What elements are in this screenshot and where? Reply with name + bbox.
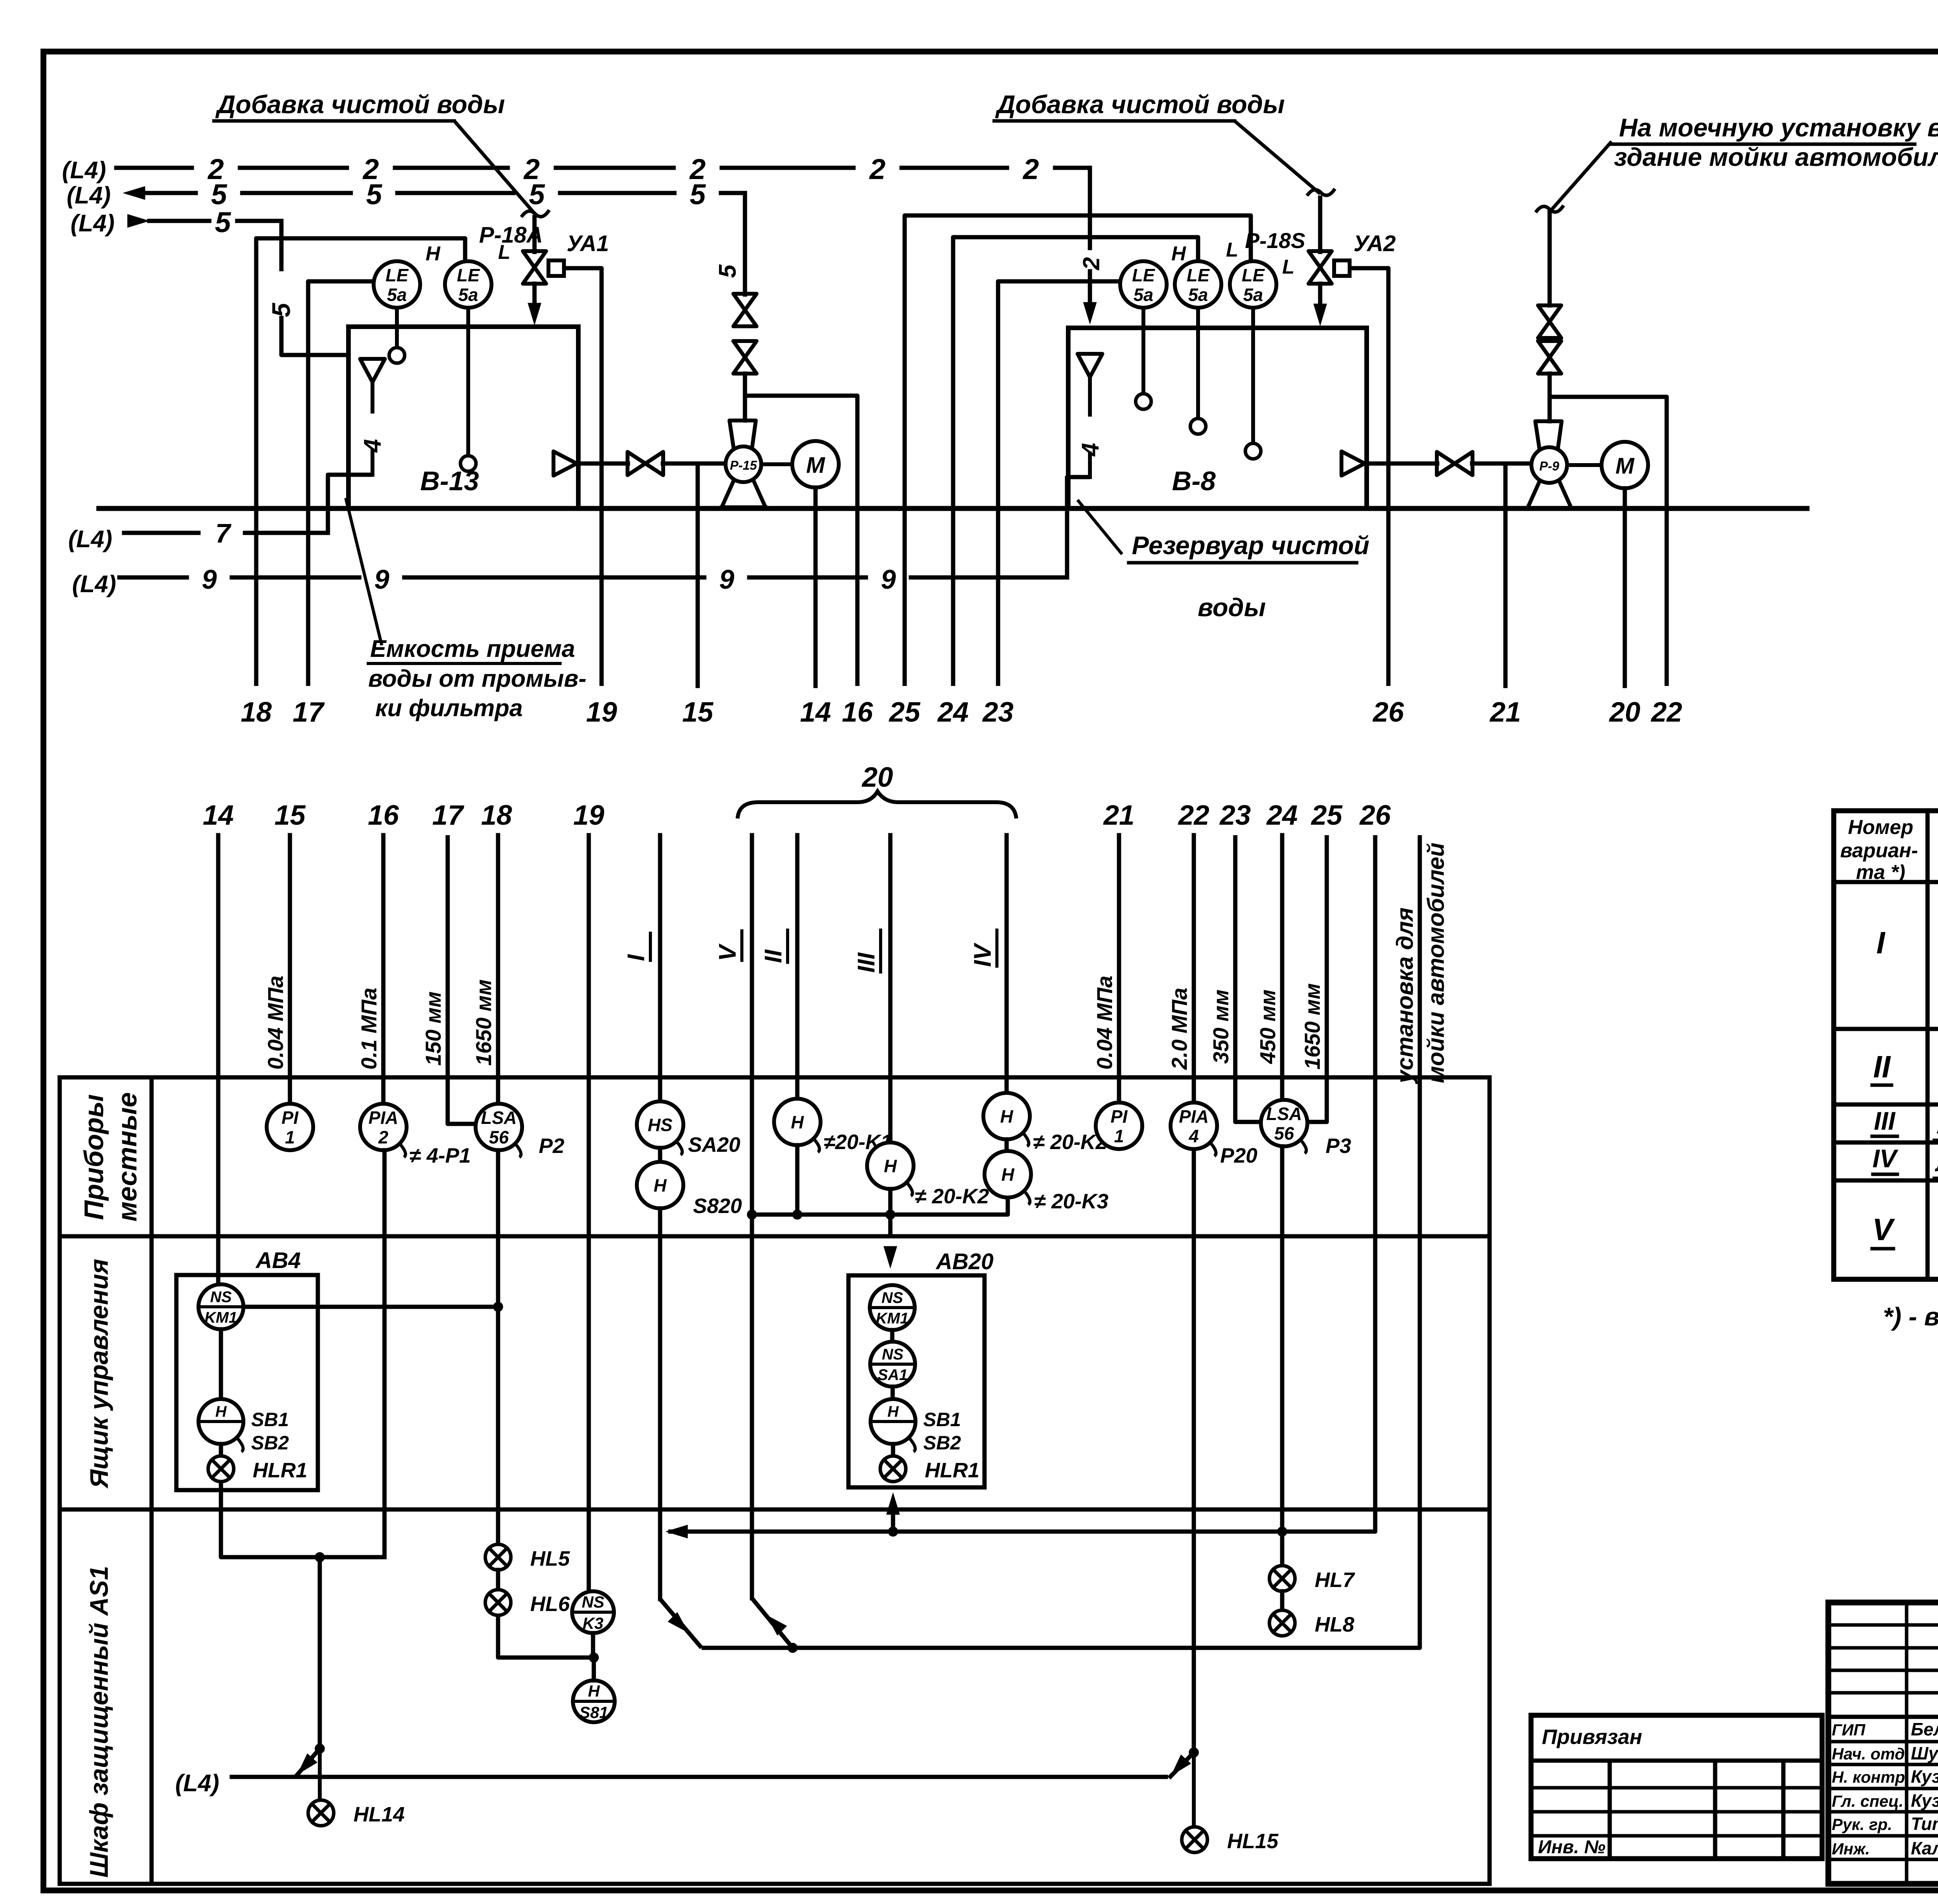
pipe from P-18S into tank B-8 with arrow — [1318, 284, 1322, 306]
pump P-9 — [1535, 421, 1562, 450]
svg-text:25: 25 — [888, 697, 921, 728]
wire line 23 lower — [1235, 835, 1261, 1122]
svg-text:H: H — [1001, 1165, 1014, 1185]
pipe break squiggle at P-18S — [1307, 189, 1335, 196]
svg-text:0.04 МПа: 0.04 МПа — [1092, 975, 1117, 1070]
svg-text:(L4): (L4) — [71, 210, 115, 237]
variants table header bottom — [1834, 880, 1938, 884]
svg-text:9: 9 — [202, 564, 217, 594]
svg-text:9: 9 — [374, 564, 390, 594]
svg-text:1650 мм: 1650 мм — [1300, 983, 1324, 1070]
wire line 26 lower — [668, 835, 1375, 1532]
selector switch line I to bus — [660, 1599, 702, 1648]
svg-text:20: 20 — [861, 762, 893, 793]
discharge pipe of P-9 with valves — [1548, 211, 1552, 305]
svg-text:II: II — [760, 949, 787, 963]
svg-text:P-18A: P-18A — [479, 222, 543, 248]
svg-text:5: 5 — [366, 178, 383, 210]
svg-text:(L4): (L4) — [68, 526, 112, 553]
svg-text:24: 24 — [1266, 800, 1298, 831]
LE B-8 probe stems and floats — [1141, 308, 1145, 394]
variants table row divider IV-V — [1834, 1179, 1938, 1183]
svg-text:M: M — [806, 453, 826, 478]
svg-text:P2: P2 — [539, 1134, 564, 1158]
svg-text:20: 20 — [1609, 697, 1640, 728]
knife switch to HL15 — [1189, 1747, 1199, 1758]
svg-text:III: III — [853, 952, 880, 973]
lamp HLR1 (AB20) — [880, 1456, 906, 1482]
svg-text:(L4): (L4) — [67, 182, 111, 209]
svg-text:1: 1 — [1114, 1126, 1124, 1146]
wire line 2 horizontal — [116, 166, 192, 170]
pump P-15 — [729, 420, 756, 449]
wire line II lower — [795, 835, 800, 1098]
lamp HL14 — [308, 1800, 334, 1826]
svg-text:Резервуар чистой: Резервуар чистой — [1132, 531, 1369, 560]
svg-text:LSA: LSA — [1266, 1104, 1302, 1124]
svg-text:19: 19 — [573, 800, 604, 831]
svg-text:HL15: HL15 — [1227, 1830, 1279, 1853]
svg-text:Гл. спец.: Гл. спец. — [1832, 1792, 1904, 1810]
suction pipe B-8 to pump P-9 — [1367, 462, 1437, 466]
tank B-13 outline — [348, 324, 578, 329]
gate valve on P-15 suction — [628, 452, 645, 475]
gate valve on P-9 suction — [1437, 452, 1455, 475]
motor M of P-9 — [1602, 442, 1648, 488]
svg-text:17: 17 — [432, 800, 464, 831]
wire line 17 lower — [448, 835, 477, 1124]
lamp HL15 — [1182, 1827, 1207, 1852]
pushbutton H 20-K2 (line III) — [867, 1142, 914, 1189]
variants table row divider II-III — [1834, 1103, 1938, 1107]
svg-text:LE: LE — [386, 265, 409, 285]
svg-text:LSA: LSA — [481, 1108, 517, 1128]
svg-text:2.0 МПа: 2.0 МПа — [1167, 988, 1191, 1070]
svg-text:V: V — [1872, 1212, 1895, 1247]
svg-text:H: H — [888, 1403, 899, 1420]
discharge branch to line 16 — [745, 396, 857, 686]
svg-text:PIA: PIA — [369, 1108, 398, 1128]
svg-text:I: I — [1876, 925, 1886, 960]
variants table outline — [1834, 811, 1938, 1279]
svg-text:H: H — [1171, 243, 1186, 265]
wire drop to HL14 switch — [318, 1557, 322, 1749]
svg-text:Рук. гр.: Рук. гр. — [1832, 1815, 1892, 1833]
pressure gauge PI 1 (line 15) — [267, 1104, 313, 1150]
svg-text:2: 2 — [1022, 153, 1039, 185]
svg-text:HL8: HL8 — [1315, 1613, 1354, 1636]
wire line 16 lower — [381, 835, 386, 1104]
pushbutton H SB1 SB2 (AB4) — [198, 1399, 243, 1444]
svg-text:450 мм: 450 мм — [1255, 989, 1280, 1064]
pipe break squiggle at P-18A — [521, 210, 549, 217]
control box AB4 outline — [176, 1275, 318, 1490]
svg-text:Шкаф защищенный AS1: Шкаф защищенный AS1 — [84, 1566, 113, 1878]
svg-text:HL14: HL14 — [353, 1803, 405, 1826]
valve P-18A — [533, 217, 537, 252]
svg-text:M: M — [1616, 453, 1635, 479]
svg-text:56: 56 — [1274, 1123, 1294, 1143]
svg-text:H: H — [653, 1175, 667, 1196]
wire bus connecting V II III IV — [752, 1198, 1008, 1215]
wire line 21 drop — [1504, 464, 1508, 686]
wire line 15 lower — [288, 835, 292, 1104]
svg-text:P-15: P-15 — [730, 458, 757, 472]
svg-text:NS: NS — [582, 1593, 604, 1611]
wire washing unit line — [702, 835, 1420, 1648]
svg-text:Привязан: Привязан — [1542, 1725, 1642, 1749]
instrument table bottom border — [60, 1882, 1490, 1886]
svg-text:5: 5 — [529, 178, 545, 210]
svg-text:25: 25 — [1310, 800, 1343, 831]
svg-text:2: 2 — [869, 153, 885, 185]
svg-text:Установка для мойки автобус: Установка для мойки автобусов(модель М12… — [1936, 1114, 1938, 1138]
svg-text:PIA: PIA — [1179, 1106, 1209, 1127]
svg-text:*) - выбирается при привя: *) - выбирается при привязке проекта — [1883, 1302, 1938, 1331]
svg-text:≠ 4-P1: ≠ 4-P1 — [409, 1144, 471, 1167]
svg-text:L: L — [1226, 239, 1238, 261]
svg-text:21: 21 — [1489, 697, 1521, 728]
svg-text:V: V — [714, 943, 741, 961]
svg-text:Шунский: Шунский — [1911, 1743, 1938, 1763]
relay NS K3 (line 19) — [572, 1591, 614, 1633]
level switch LSA 56 (lines 17,18) — [476, 1104, 522, 1150]
svg-text:17: 17 — [293, 697, 325, 728]
svg-text:Калмыков: Калмыков — [1911, 1838, 1938, 1858]
svg-text:воды от промыв-: воды от промыв- — [368, 665, 586, 692]
svg-text:5a: 5a — [1243, 284, 1263, 305]
pressure gauge PI 1 (line 21) — [1096, 1103, 1142, 1149]
svg-text:5a: 5a — [387, 284, 407, 305]
instrument table row separator 2 — [60, 1508, 1490, 1512]
instrument table top border — [60, 1075, 1490, 1080]
svg-text:H: H — [216, 1403, 227, 1420]
wire line 19 lower — [587, 835, 591, 1592]
level sensor LE 5a H (B-8) — [1120, 261, 1167, 308]
svg-text:9: 9 — [719, 564, 735, 594]
svg-text:19: 19 — [586, 697, 617, 728]
lamp HL6 on line 18 — [485, 1590, 511, 1615]
svg-text:5: 5 — [714, 264, 741, 278]
selector switch line V to bus — [752, 1598, 793, 1648]
svg-text:15: 15 — [274, 800, 306, 831]
level sensor LE 5a L3 (B-8) — [1230, 261, 1276, 308]
svg-text:ки фильтра: ки фильтра — [375, 695, 523, 722]
starter NS KM1 (AB4) — [198, 1284, 243, 1329]
svg-text:Кузнецов: Кузнецов — [1911, 1766, 1938, 1787]
svg-text:22: 22 — [1178, 800, 1209, 831]
svg-text:22: 22 — [1650, 697, 1682, 728]
wire line IV lower — [1005, 835, 1009, 1093]
svg-text:2: 2 — [378, 1127, 388, 1147]
discharge pipe of P-15 with valves — [743, 193, 747, 295]
pushbutton H S820 (line I) — [637, 1162, 683, 1208]
wire line 2 drop into tank B-8 — [1088, 168, 1092, 248]
svg-text:4: 4 — [1188, 1126, 1199, 1146]
svg-text:HS: HS — [648, 1115, 672, 1135]
svg-text:IV: IV — [1872, 1144, 1898, 1173]
svg-text:NS: NS — [210, 1289, 232, 1306]
svg-text:2: 2 — [1078, 257, 1104, 270]
pushbutton H 20-K2 (line IV) — [983, 1093, 1030, 1139]
svg-text:SB2: SB2 — [923, 1432, 961, 1454]
wire from УА1 to line 19 — [564, 268, 602, 686]
svg-text:S820: S820 — [693, 1194, 742, 1218]
svg-text:HL5: HL5 — [530, 1547, 570, 1570]
svg-text:H: H — [588, 1682, 600, 1700]
svg-text:5: 5 — [215, 206, 231, 238]
pressure gauge PIA 4 (line 22) — [1171, 1103, 1217, 1149]
svg-text:установка для: установка для — [1392, 907, 1418, 1084]
svg-text:H: H — [884, 1156, 897, 1176]
leader to tank B-13 note — [346, 498, 382, 645]
svg-text:SB1: SB1 — [923, 1409, 961, 1430]
svg-text:SA20: SA20 — [688, 1133, 740, 1156]
pressure gauge PIA 2 (line 16) — [360, 1104, 407, 1150]
svg-text:Инв. №: Инв. № — [1538, 1837, 1605, 1857]
instrument table left border — [58, 1077, 62, 1884]
svg-text:Белоус: Белоус — [1911, 1719, 1938, 1739]
pipe 9 elbow into tank B-8 — [1067, 477, 1090, 577]
svg-text:SA1: SA1 — [878, 1366, 908, 1384]
solenoid УА2 — [1334, 260, 1350, 276]
wire from УА2 to line 26 — [1350, 268, 1388, 686]
svg-text:HL6: HL6 — [530, 1592, 570, 1616]
svg-text:5: 5 — [211, 178, 228, 210]
svg-text:5a: 5a — [1133, 284, 1153, 305]
wire line 18 lower — [496, 835, 500, 1104]
solenoid УА1 — [548, 260, 564, 276]
wire line 14 lower — [216, 835, 221, 1284]
svg-text:(L4): (L4) — [62, 157, 106, 184]
lamp HL5 on line 18 — [485, 1544, 511, 1570]
svg-text:1: 1 — [285, 1127, 295, 1147]
starter NS KM1 (AB20) — [870, 1285, 915, 1330]
svg-text:УА2: УА2 — [1353, 231, 1396, 256]
wire bracket line 18 to LE 5a L of B-13 — [256, 238, 465, 686]
svg-text:23: 23 — [1219, 800, 1251, 831]
junction dots on cabinet bus 3952 — [1277, 1527, 1287, 1537]
LE L probe stem and float — [466, 308, 470, 456]
svg-text:Ящик управления: Ящик управления — [84, 1259, 113, 1489]
svg-text:воды: воды — [1198, 593, 1266, 622]
level switch LSA 56 (lines 23,24,25) — [1261, 1100, 1307, 1146]
svg-text:7: 7 — [216, 518, 232, 548]
svg-text:IV: IV — [969, 943, 996, 967]
svg-text:SB1: SB1 — [251, 1409, 289, 1430]
svg-text:Добавка чистой воды: Добавка чистой воды — [215, 90, 505, 119]
wire line 14 inside AB4 — [216, 1104, 221, 1284]
arrow up into AB20 bottom — [891, 1511, 895, 1533]
svg-text:Н. контр.: Н. контр. — [1832, 1768, 1910, 1786]
svg-text:(L4): (L4) — [72, 571, 116, 598]
wire from HL6 to NS K3 bus — [498, 1615, 594, 1658]
selector NS SA1 (AB20) — [870, 1342, 915, 1387]
wire line 14 drop from motor — [814, 488, 818, 686]
svg-text:Добавка чистой воды: Добавка чистой воды — [995, 90, 1285, 119]
svg-text:1650 мм: 1650 мм — [471, 979, 496, 1066]
wire line 5 feed with right arrow to tank B-13 — [128, 214, 149, 227]
wire bracket line 25 to LE 5a L3 of B-8 — [905, 215, 1251, 686]
pipe 4 stem into tank B-13 — [371, 382, 374, 412]
svg-text:B-8: B-8 — [1172, 466, 1216, 496]
knife switch to HL14 — [315, 1744, 325, 1754]
svg-text:LE: LE — [1242, 265, 1265, 285]
svg-text:HLR1: HLR1 — [925, 1459, 979, 1482]
brace group 20 — [738, 791, 1016, 818]
svg-text:Титов: Титов — [1911, 1814, 1938, 1834]
svg-text:HLR1: HLR1 — [253, 1459, 307, 1482]
variants table row divider I-II — [1834, 1027, 1938, 1031]
svg-text:Номер: Номер — [1848, 816, 1913, 839]
svg-text:5: 5 — [267, 302, 295, 317]
svg-text:III: III — [1874, 1106, 1896, 1135]
wire line III lower — [888, 835, 893, 1142]
lamp HL8 on line 24 — [1269, 1610, 1295, 1636]
hand switch HS SA20 (line I) — [637, 1101, 683, 1148]
wire line 14 below AB4 — [221, 1482, 384, 1557]
svg-text:ГИП: ГИП — [1832, 1721, 1866, 1739]
funnel inlet of tank B-13 — [360, 359, 385, 382]
arrow into AB20 from line III — [884, 1246, 897, 1268]
level sensor LE 5a L (B-13) — [445, 261, 491, 308]
svg-text:0.1 МПа: 0.1 МПа — [357, 988, 381, 1070]
instrument table right border — [1488, 1077, 1492, 1884]
wire line 24 through LSA down — [1280, 1146, 1285, 1566]
title block left grid rows — [1828, 1623, 1938, 1627]
svg-text:AB4: AB4 — [255, 1248, 301, 1273]
check valve at tank B-13 outlet — [553, 451, 577, 476]
svg-text:H: H — [1000, 1106, 1013, 1127]
svg-text:0.04 МПа: 0.04 МПа — [263, 975, 288, 1070]
wire line V lower — [750, 835, 754, 1598]
check valve at tank B-8 outlet — [1341, 451, 1365, 476]
svg-text:Нач. отд.: Нач. отд. — [1832, 1745, 1909, 1763]
pipe 7 elbow into tank B-13 — [328, 475, 372, 533]
svg-text:HL7: HL7 — [1315, 1568, 1355, 1592]
svg-text:18: 18 — [241, 697, 272, 728]
valve P-18S — [1318, 198, 1322, 252]
instrument table label column divider — [150, 1077, 154, 1884]
svg-text:II: II — [1873, 1049, 1891, 1084]
pipe from P-18A into tank B-13 with arrow — [533, 284, 537, 306]
svg-text:5: 5 — [690, 178, 706, 210]
svg-text:P3: P3 — [1326, 1134, 1351, 1158]
svg-text:вариан-: вариан- — [1840, 839, 1918, 862]
pushbutton H 20-K1 (line II) — [774, 1099, 821, 1145]
svg-text:14: 14 — [203, 800, 234, 831]
lamp HL7 on line 24 — [1269, 1566, 1295, 1591]
svg-text:9: 9 — [881, 564, 896, 594]
svg-text:мойки автомобилей: мойки автомобилей — [1423, 843, 1449, 1083]
svg-text:P-18S: P-18S — [1245, 228, 1305, 253]
svg-text:B-13: B-13 — [420, 466, 479, 496]
svg-text:местные: местные — [112, 1092, 142, 1222]
tank B-8 outline — [1068, 326, 1367, 330]
svg-text:PI: PI — [1110, 1106, 1128, 1127]
wire line I lower — [658, 835, 662, 1101]
svg-text:LE: LE — [1187, 265, 1210, 285]
svg-text:150 мм: 150 мм — [421, 991, 445, 1066]
svg-text:Кузнецов: Кузнецов — [1911, 1790, 1938, 1811]
svg-text:23: 23 — [982, 697, 1014, 728]
svg-text:УА1: УА1 — [567, 231, 609, 256]
wire bracket line 17 to LE 5a H of B-13 — [308, 281, 373, 686]
svg-text:SB2: SB2 — [251, 1432, 289, 1454]
svg-text:K3: K3 — [583, 1614, 603, 1632]
svg-text:LE: LE — [1132, 265, 1155, 285]
pushbutton H 20-K3 (line IV) — [985, 1151, 1031, 1198]
wire line 15 drop — [696, 464, 700, 686]
wire line 24 lower — [1280, 835, 1285, 1101]
svg-text:H: H — [791, 1112, 804, 1132]
svg-text:Приборы: Приборы — [79, 1094, 109, 1220]
svg-text:Инж.: Инж. — [1832, 1840, 1870, 1858]
wire line 22 lower — [1192, 835, 1196, 1752]
pushbutton H SB1 SB2 (AB20) — [871, 1399, 916, 1444]
wire bracket line 23 to LE 5a H of B-8 — [998, 281, 1120, 686]
svg-text:21: 21 — [1103, 800, 1135, 831]
svg-text:На моечную установку в: На моечную установку в — [1619, 113, 1938, 142]
svg-text:24: 24 — [937, 697, 969, 728]
leader to washing unit note — [1552, 141, 1612, 209]
funnel inlet of tank B-8 — [1078, 354, 1102, 377]
title block left grid columns — [1905, 1602, 1909, 1884]
LE H probe stem and float — [395, 308, 399, 348]
level sensor LE 5a L2 (B-8) — [1175, 261, 1221, 308]
variants table row divider III-IV — [1834, 1141, 1938, 1145]
leader to tank B-8 note — [1078, 500, 1122, 554]
wire line 21 lower — [1117, 835, 1121, 1103]
svg-text:56: 56 — [489, 1127, 509, 1147]
wire line 18 through LSA down — [496, 1150, 500, 1544]
svg-text:P-9: P-9 — [1539, 459, 1559, 473]
svg-text:26: 26 — [1359, 800, 1391, 831]
svg-text:P20: P20 — [1220, 1144, 1257, 1167]
svg-text:15: 15 — [682, 697, 714, 728]
svg-text:NS: NS — [881, 1289, 903, 1306]
svg-text:S81: S81 — [579, 1703, 609, 1721]
svg-text:≠ 20-K2: ≠ 20-K2 — [915, 1185, 989, 1208]
wire from NS KM1 to line 18 — [243, 1305, 498, 1309]
svg-text:KM1: KM1 — [876, 1310, 909, 1327]
variants table header column divider — [1926, 811, 1930, 1279]
svg-text:16: 16 — [842, 697, 873, 728]
title block signature rows — [1828, 1740, 1938, 1744]
wire line 5 horizontal with left arrow — [123, 186, 145, 200]
svg-text:L: L — [1282, 256, 1295, 278]
svg-text:NS: NS — [882, 1346, 903, 1363]
motor M of P-15 — [792, 441, 839, 488]
svg-text:AB20: AB20 — [935, 1249, 993, 1274]
svg-text:≠ 20-K3: ≠ 20-K3 — [1034, 1190, 1109, 1213]
pushbutton H S81 — [573, 1680, 615, 1722]
svg-text:16: 16 — [368, 800, 399, 831]
svg-text:(L4): (L4) — [175, 1770, 219, 1797]
suction pipe B-13 to pump P-15 — [578, 462, 628, 466]
svg-text:5a: 5a — [1188, 284, 1208, 305]
svg-text:14: 14 — [800, 697, 831, 728]
pipe 4 stem into tank B-8 — [1088, 377, 1092, 415]
floor line — [99, 506, 1807, 511]
svg-text:LE: LE — [457, 265, 480, 285]
discharge branch to line 22 — [1550, 397, 1667, 686]
wire bracket line 24 to LE 5a L2 of B-8 — [953, 237, 1198, 686]
svg-text:H: H — [426, 243, 441, 265]
title block attachment grid (Privyazan) — [1531, 1715, 1822, 1859]
svg-text:PI: PI — [281, 1108, 299, 1128]
instrument table row separator 1 — [60, 1234, 1490, 1239]
